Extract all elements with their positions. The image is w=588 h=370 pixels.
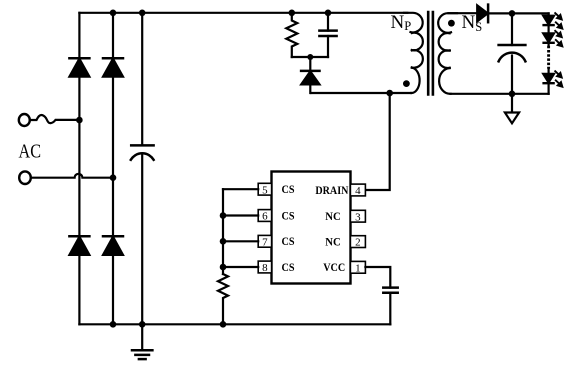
wire output node <box>488 12 548 14</box>
label pin 1 <box>355 262 361 274</box>
pin 2 box <box>350 236 365 248</box>
svg-text:6: 6 <box>262 211 268 223</box>
pin 6 box <box>258 210 271 222</box>
svg-text:CS: CS <box>282 236 295 248</box>
wire dashed LED continuation <box>547 43 549 74</box>
node AC live junction <box>76 117 83 124</box>
label AC <box>19 141 42 163</box>
svg-text:VCC: VCC <box>323 262 345 274</box>
capacitor C3 VCC <box>383 288 397 325</box>
pin 4 box <box>350 184 365 196</box>
node top rail R1 <box>289 10 296 17</box>
LED3 <box>543 74 554 83</box>
label pin 4 <box>355 185 361 197</box>
wire right bridge leg <box>112 13 114 325</box>
wire drain node <box>311 92 411 94</box>
diode D3 bridge bottom-left <box>69 236 89 255</box>
node bottom rail C1 <box>139 321 146 328</box>
node top rail C2 <box>325 10 332 17</box>
fuse F1 <box>30 115 80 123</box>
LED2 emission arrows <box>555 31 563 47</box>
wire pin5 stub <box>223 188 258 190</box>
label pin 3 <box>355 211 361 223</box>
LED1 <box>543 16 554 25</box>
svg-text:NC: NC <box>325 236 341 248</box>
node output bottom <box>509 91 516 98</box>
label Ns <box>462 12 483 34</box>
node junction dots <box>76 10 515 328</box>
resistor R1 snubber <box>286 13 297 57</box>
wire top rail <box>79 12 407 14</box>
label NC pin2 <box>325 236 341 248</box>
wire CS bus <box>222 189 224 274</box>
pin 8 box <box>258 261 271 273</box>
label pin 8 <box>262 262 268 274</box>
wire pin1 to VCC capacitor <box>365 267 390 288</box>
wire snubber bottom <box>292 56 328 58</box>
diode D5 clamp <box>301 57 319 93</box>
diode D2 bridge top-right <box>103 58 123 76</box>
node bottom rail R2 <box>220 321 227 328</box>
label pin 7 <box>262 236 268 248</box>
LED2 <box>543 33 554 42</box>
transformer secondary phase dot <box>448 20 455 27</box>
svg-text:8: 8 <box>262 262 268 274</box>
wire LED1 to LED2 <box>547 25 549 33</box>
svg-text:5: 5 <box>262 184 268 196</box>
ground earth symbol <box>132 324 152 359</box>
label CS pin7 <box>282 236 295 248</box>
node output top <box>509 10 516 17</box>
transformer T1 secondary winding Ns <box>438 13 457 94</box>
svg-text:DRAIN: DRAIN <box>315 185 349 197</box>
svg-text:NC: NC <box>325 211 341 223</box>
node bottom rail D4 <box>110 321 117 328</box>
LED1 emission arrows <box>555 13 563 29</box>
diode D6 output rectifier <box>477 5 488 23</box>
wire secondary bottom <box>451 93 549 95</box>
svg-text:7: 7 <box>262 236 268 248</box>
terminal AC neutral <box>19 171 31 184</box>
label CS pin8 <box>282 262 295 274</box>
label pin 6 <box>262 211 268 223</box>
svg-text:3: 3 <box>355 211 361 223</box>
wire left bridge leg <box>78 13 80 325</box>
wire LED3 to bottom rail <box>547 83 549 94</box>
wire drain to pin4 <box>365 93 389 190</box>
node bus pin6 <box>220 212 227 219</box>
label VCC pin1 <box>323 262 345 274</box>
label CS pin6 <box>282 210 295 222</box>
LED3 emission arrows <box>555 71 563 87</box>
wire bottom rail <box>79 323 390 325</box>
label pin 2 <box>355 237 361 249</box>
svg-text:1: 1 <box>355 262 361 274</box>
pin 3 box <box>350 210 365 222</box>
svg-text:CS: CS <box>282 184 295 196</box>
wire AC neutral with crossover hop <box>31 174 113 178</box>
transformer T1 primary winding Np <box>404 13 423 93</box>
node AC neutral junction <box>110 174 117 181</box>
label CS pin5 <box>282 184 295 196</box>
svg-text:4: 4 <box>355 185 361 197</box>
label Np <box>391 12 412 33</box>
op-amp U1 controller body <box>272 172 351 284</box>
terminal AC live <box>19 114 30 126</box>
label pin 5 <box>262 184 268 196</box>
node bus pin7 <box>220 238 227 245</box>
capacitor C2 snubber <box>319 13 336 57</box>
wire pin7 stub <box>223 240 258 242</box>
diode D4 bridge bottom-right <box>103 236 123 255</box>
pin 1 box <box>350 261 365 273</box>
diode D1 bridge top-left <box>69 58 89 76</box>
LED string top wire <box>547 13 549 15</box>
node top rail C1 <box>139 10 146 17</box>
svg-text:CS: CS <box>282 262 295 274</box>
wire secondary top <box>449 12 478 14</box>
node bus pin8 <box>220 264 227 271</box>
pin 7 box <box>258 235 271 247</box>
label NC pin3 <box>325 211 341 223</box>
transformer primary phase dot <box>403 80 410 87</box>
capacitor C4 output <box>499 13 526 93</box>
node drain junction <box>386 90 393 97</box>
pin 5 box <box>258 183 271 195</box>
capacitor C1 bulk <box>131 13 154 325</box>
node top rail D2 <box>110 10 117 17</box>
ground output signal ground <box>505 94 519 124</box>
transformer core <box>428 12 433 95</box>
resistor R2 current sense <box>218 274 228 324</box>
node snubber diode <box>307 54 313 60</box>
label DRAIN pin4 <box>315 185 349 197</box>
wire pin8 stub <box>223 266 258 268</box>
svg-text:CS: CS <box>282 210 295 222</box>
svg-text:2: 2 <box>355 237 361 249</box>
svg-text:AC: AC <box>19 141 42 163</box>
wire pin6 stub <box>223 214 258 216</box>
